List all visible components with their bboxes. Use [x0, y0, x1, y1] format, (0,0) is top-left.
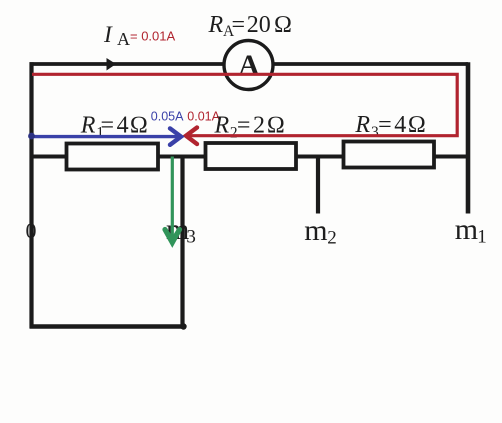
svg-text:0: 0 — [26, 218, 37, 243]
svg-text:m: m — [455, 213, 478, 246]
svg-text:1: 1 — [477, 227, 487, 248]
wire middle row segment R1-to-R2 — [156, 155, 207, 159]
svg-text:A: A — [239, 50, 260, 82]
svg-text:3: 3 — [186, 227, 196, 248]
svg-text:20: 20 — [247, 12, 271, 38]
wire top horizontal — [30, 62, 469, 66]
svg-text:4: 4 — [117, 113, 129, 139]
wire middle row segment left-to-R1 — [30, 155, 69, 159]
svg-text:m: m — [304, 214, 327, 247]
svg-text:=: = — [232, 12, 246, 38]
wire left vertical — [29, 62, 33, 328]
wire middle row segment R2-to-R3 — [294, 155, 345, 159]
svg-text:0.05A: 0.05A — [151, 110, 184, 124]
junction node bottom-right — [180, 323, 186, 329]
blue arrowhead pointing right — [170, 128, 181, 144]
wire m2 branch vertical — [316, 157, 320, 214]
ammeter A1 circle — [224, 41, 273, 90]
svg-text:=: = — [101, 113, 115, 139]
svg-text:R: R — [208, 12, 224, 38]
wire middle row segment R3-to-right — [432, 155, 470, 159]
blue current path through R1 — [30, 135, 179, 138]
resistor R2 — [206, 143, 297, 169]
current direction arrow on top wire — [107, 58, 117, 71]
svg-text:R: R — [80, 113, 96, 139]
blue junction node at left — [28, 133, 35, 140]
resistor R1 — [67, 144, 159, 170]
svg-text:Ω: Ω — [274, 12, 292, 38]
green voltage arrow u3 line — [171, 157, 174, 239]
svg-text:Ω: Ω — [130, 113, 148, 139]
wire m3 branch vertical (covers m of m3) — [180, 157, 184, 328]
svg-text:= 0.01A: = 0.01A — [130, 28, 176, 43]
wire right vertical (m1 branch) — [466, 62, 471, 213]
green arrowhead pointing down — [165, 230, 180, 243]
svg-text:A: A — [117, 29, 130, 49]
green arrowhead inner stroke — [168, 234, 177, 242]
svg-text:I: I — [103, 22, 113, 48]
red arrowhead pointing left — [186, 128, 197, 145]
resistor R3 — [344, 142, 435, 168]
svg-text:2: 2 — [327, 228, 337, 249]
wire bottom horizontal — [30, 324, 185, 329]
red current path I_A (loop through ammeter, R3 branch) — [32, 74, 457, 135]
